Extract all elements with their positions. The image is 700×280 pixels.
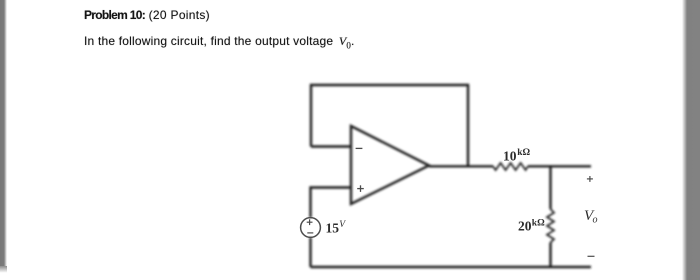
- svg-text:kΩ: kΩ: [517, 148, 530, 158]
- svg-text:V: V: [339, 220, 346, 230]
- svg-text:kΩ: kΩ: [532, 219, 545, 229]
- svg-text:o: o: [593, 215, 598, 226]
- svg-text:15: 15: [326, 220, 340, 235]
- svg-text:20: 20: [518, 219, 532, 234]
- svg-text:10: 10: [503, 149, 517, 164]
